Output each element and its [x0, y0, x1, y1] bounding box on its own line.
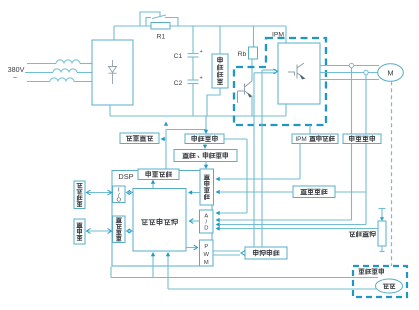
- svg-text:R1: R1: [157, 34, 166, 41]
- svg-text:DSP: DSP: [118, 172, 133, 181]
- wire gate drive into inverter: [262, 69, 276, 71]
- wire encoder channel B to CPU: [168, 288, 376, 290]
- svg-text:P: P: [204, 244, 208, 250]
- wire negative DC bus: [109, 105, 111, 116]
- wire into current limit start box: [162, 138, 166, 140]
- node 模拟给定 label: [349, 232, 355, 237]
- box 电流检测 current detection: [343, 134, 381, 144]
- motor M: [378, 64, 404, 82]
- diode inside rectifier: [109, 60, 117, 84]
- bypass contactor switch across R1: [146, 18, 151, 27]
- svg-text:Rb: Rb: [238, 51, 247, 58]
- wire voltage detection to A/D: [224, 138, 247, 140]
- wire voltage detection to ov/uv detection: [204, 144, 206, 147]
- wire voltage display to negative bus: [207, 88, 220, 116]
- svg-text:+: +: [200, 49, 203, 55]
- wire input phase R: [27, 63, 56, 65]
- wire I/O to CPU bidirectional: [127, 190, 130, 194]
- wire isolation circuit to IPM gate lines: [253, 73, 255, 247]
- resistor R1 on positive bus: [151, 23, 170, 30]
- svg-text:D: D: [204, 226, 208, 232]
- wire analog setting to A/D: [217, 228, 378, 230]
- svg-text:+: +: [200, 76, 203, 82]
- wire IPM dashed box to fault signal box: [309, 125, 311, 134]
- box A/D: [200, 210, 214, 233]
- transistor inverter IGBT symbol: [288, 63, 304, 79]
- wire A/D to CPU: [190, 220, 200, 222]
- wire comm interface to CPU bidirectional: [127, 229, 130, 233]
- wire motor shaft to encoder dashed: [391, 81, 393, 266]
- rectifier bridge block: [92, 40, 133, 105]
- wire overcurrent protection to fault protection: [217, 191, 293, 193]
- box 电压检测 voltage detection: [185, 134, 224, 144]
- inductor input reactor coil S: [53, 69, 77, 73]
- wire DC bus tap to voltage detection: [205, 116, 207, 131]
- wire control net to contactor: [166, 129, 206, 131]
- box PWM: [200, 240, 214, 266]
- wire braking transistor emitter to negative bus: [251, 96, 253, 117]
- node 转速检测 label: [357, 268, 386, 277]
- box 键盘显示 keypad display: [74, 181, 85, 209]
- wire CPU to pump-up limit: [152, 184, 154, 189]
- junction current sensor 2: [364, 70, 368, 74]
- wire ov/uv detection to fault protection: [205, 162, 207, 166]
- svg-text:M: M: [387, 69, 393, 78]
- DSP block outline: [112, 171, 212, 267]
- contactor actuation link: [140, 12, 160, 26]
- inductor input reactor coil T: [50, 78, 74, 82]
- inductor input reactor coil R: [56, 60, 80, 64]
- box 故障保护 fault protection: [200, 169, 214, 205]
- svg-text:C1: C1: [174, 53, 183, 60]
- wire current sensor 2 down: [365, 75, 367, 225]
- resistor Rb braking resistor: [253, 26, 255, 47]
- wire current sensor 1 to A/D: [351, 68, 353, 220]
- transistor braking IGBT: [238, 81, 253, 103]
- encoder 码盘: [376, 279, 403, 293]
- voltage display box 电压显示: [219, 26, 221, 54]
- wire encoder channel A to CPU: [111, 277, 378, 279]
- capacitor C2: [188, 79, 199, 81]
- box 过压欠压检测 over/under voltage detection: [174, 150, 237, 162]
- wire fault protection to CPU: [190, 192, 200, 194]
- box IPM故障信号 IPM fault signal: [292, 134, 338, 144]
- dashed box 转速检测 speed detection: [353, 266, 407, 297]
- svg-text:~: ~: [13, 73, 17, 82]
- wire input phase S: [25, 72, 53, 74]
- wire inverter to motor phase W: [320, 79, 379, 81]
- junction current sensor 1: [349, 63, 353, 67]
- wire host to comm interface bidirectional: [87, 230, 112, 232]
- box 隔离电路 isolation circuit: [245, 247, 287, 259]
- wire inverter to motor phase V: [320, 72, 379, 74]
- svg-text:W: W: [204, 252, 210, 258]
- wire PWM to isolation circuit double line: [213, 250, 240, 252]
- IPM dashed boundary: [234, 38, 326, 125]
- inverter bridge block inside IPM: [285, 26, 287, 43]
- svg-text:IPM: IPM: [272, 32, 284, 39]
- box 上位机 host computer: [74, 219, 85, 244]
- svg-text:C2: C2: [174, 80, 183, 87]
- box 泵升限制 pump-up voltage limit: [138, 169, 179, 180]
- wire IPM fault signal to fault protection: [299, 144, 301, 180]
- capacitor C1: [192, 26, 194, 54]
- box 过流保护 overcurrent protection: [293, 186, 335, 198]
- wire CPU to PWM: [186, 247, 197, 249]
- box 通信接口 communication interface: [113, 216, 126, 243]
- wire inverter to motor phase U: [320, 65, 379, 67]
- wire positive DC bus: [113, 26, 115, 40]
- svg-text:M: M: [204, 260, 209, 266]
- wire current sensor to overcurrent protection: [335, 191, 366, 193]
- svg-text:O: O: [117, 197, 122, 203]
- box 限流起动 current-limit start: [120, 133, 159, 144]
- svg-text:IPM: IPM: [295, 136, 306, 143]
- wire input phase T: [27, 81, 50, 83]
- box 中央处理器 CPU: [133, 189, 186, 252]
- potentiometer 模拟给定 analog setting: [381, 209, 383, 220]
- wire Rb to braking transistor: [251, 59, 253, 81]
- wire keypad to I/O bidirectional: [87, 192, 112, 194]
- box I/O: [113, 186, 126, 203]
